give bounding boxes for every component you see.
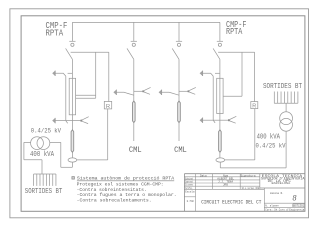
svg-text:0.4/25 kV: 0.4/25 kV [256, 142, 286, 149]
svg-text:-Contra sobreintensitats.: -Contra sobreintensitats. [77, 187, 147, 193]
svg-text:N. alumne: N. alumne [265, 205, 279, 208]
svg-text:SORTIDES BT: SORTIDES BT [25, 188, 63, 196]
svg-text:98071301: 98071301 [292, 205, 305, 208]
svg-text:R: R [252, 104, 256, 110]
svg-text:Verific.: Verific. [185, 187, 193, 190]
svg-text:Curs: 5è Curs d'Enginyeria: Curs: 5è Curs d'Enginyeria [265, 209, 305, 212]
svg-text:Làmina N.: Làmina N. [270, 191, 284, 195]
svg-text:CIRCUIT ELECTRIC DEL CT: CIRCUIT ELECTRIC DEL CT [201, 199, 261, 205]
svg-text:Escala: Escala [185, 190, 195, 194]
svg-text:CML: CML [129, 146, 142, 155]
svg-text:1:50: 1:50 [187, 200, 194, 203]
svg-text:Protegeix esl sistemes CGM-CMP: Protegeix esl sistemes CGM-CMP: [77, 182, 164, 188]
svg-text:BARCELONA: BARCELONA [272, 182, 291, 185]
svg-text:RPTA: RPTA [46, 27, 64, 38]
svg-text:Signatura: Signatura [240, 173, 255, 177]
svg-text:Data: Data [200, 174, 207, 177]
svg-text:8: 8 [293, 193, 297, 202]
svg-text:0.4/25 kV: 0.4/25 kV [31, 127, 61, 134]
svg-text:SORTIDES BT: SORTIDES BT [263, 83, 303, 91]
svg-text:RPTA: RPTA [226, 26, 243, 37]
svg-text:Id.s.normes UNE: Id.s.normes UNE [242, 187, 260, 190]
svg-text:JRB: JRB [223, 184, 228, 187]
svg-text:400 kVA: 400 kVA [257, 133, 281, 141]
svg-text:400 kVA: 400 kVA [30, 151, 55, 159]
svg-text:CML: CML [174, 146, 187, 155]
svg-text:-Contra sobrecalentaments.: -Contra sobrecalentaments. [77, 197, 152, 203]
svg-text:-Contra fugues a terra o monop: -Contra fugues a terra o monopolar. [77, 192, 177, 198]
